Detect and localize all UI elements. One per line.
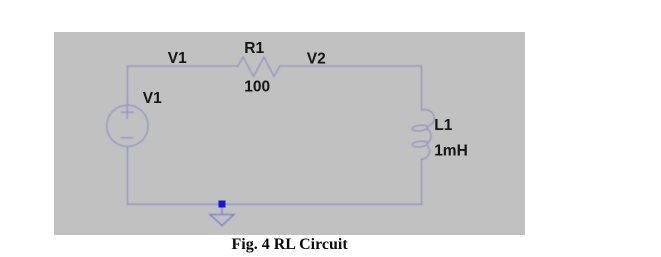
wire: top rail right segment from resistor to right corner	[280, 65, 422, 67]
ground stub	[221, 208, 223, 215]
wire: top rail left segment to resistor	[128, 65, 238, 67]
wire: bottom rail	[128, 203, 422, 205]
ground triangle	[210, 215, 234, 226]
voltage source plus sign	[121, 106, 133, 118]
ground symbol	[210, 208, 234, 226]
resistor R1	[238, 57, 280, 77]
svg-text:V2: V2	[307, 51, 326, 68]
svg-text:L1: L1	[434, 117, 452, 134]
wire: right vertical upper (corner to inductor)	[421, 66, 423, 110]
svg-text:100: 100	[244, 78, 270, 95]
svg-text:1mH: 1mH	[434, 143, 468, 160]
wire: left vertical lower (bottom rail to source bottom)	[127, 147, 129, 205]
ground junction square	[219, 201, 226, 208]
wire: top-left vertical (source top to top rail)	[127, 66, 129, 105]
svg-text:V1: V1	[143, 90, 162, 107]
schematic gray canvas	[54, 32, 525, 235]
svg-text:R1: R1	[244, 40, 264, 57]
svg-text:Fig. 4 RL Circuit: Fig. 4 RL Circuit	[232, 236, 349, 253]
voltage source V1 body	[107, 105, 148, 146]
inductor L1	[422, 110, 435, 127]
svg-text:V1: V1	[168, 50, 187, 67]
voltage source minus sign	[121, 137, 132, 139]
wire: right vertical lower (inductor to bottom rail)	[421, 160, 423, 205]
